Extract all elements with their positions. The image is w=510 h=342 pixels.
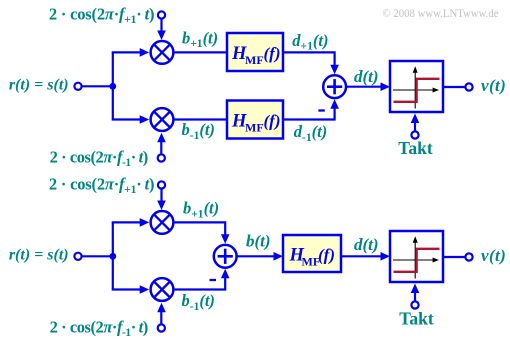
wire: matched filter to decision box with arrowhead (bottom diagram) xyxy=(341,252,390,261)
wire: M2 to matched filter H2 xyxy=(173,118,228,120)
node: Takt clock terminal (bottom diagram) xyxy=(411,301,418,308)
node: carrier f-1 input terminal (top diagram) xyxy=(158,154,165,161)
svg-text:Takt: Takt xyxy=(399,308,434,328)
wire: H1 output right then down into adder with arrowhead xyxy=(283,52,339,74)
wire: carrier f+1 node down to multiplier M3 with arrowhead xyxy=(157,189,166,210)
wire: H2 output right then up into adder with arrowhead xyxy=(283,99,339,119)
svg-text:2 · cos(2π·f-1· t): 2 · cos(2π·f-1· t) xyxy=(50,318,148,340)
decision device horizontal axis (top diagram) xyxy=(393,88,439,93)
multiplier M2 (top diagram, lower) xyxy=(151,108,174,131)
svg-text:r(t) = s(t): r(t) = s(t) xyxy=(9,77,69,94)
svg-text:2 · cos(2π·f+1· t): 2 · cos(2π·f+1· t) xyxy=(49,175,154,197)
wire: junction vertical branch (top diagram) xyxy=(112,52,114,119)
node: input terminal r(t) (top diagram) xyxy=(74,83,81,90)
adder (bottom diagram) xyxy=(214,245,237,268)
junction dot (top diagram) xyxy=(109,83,116,90)
decision device horizontal axis (bottom diagram) xyxy=(393,258,439,263)
wire: adder to decision box with arrowhead (top diagram) xyxy=(346,82,390,91)
minus sign at lower adder input (bottom diagram) xyxy=(210,279,217,281)
decision device box (bottom diagram) xyxy=(390,231,443,282)
adder (top diagram) xyxy=(323,75,346,98)
decision device vertical axis (bottom diagram) xyxy=(413,236,418,278)
wire: M1 to matched filter H1 xyxy=(173,51,228,53)
wire: adder to matched filter with arrowhead (bottom diagram) xyxy=(237,252,283,261)
wire: M4 output right then up into adder with arrowhead (bottom diagram) xyxy=(173,269,229,290)
wire: upper branch into multiplier M1 with arrowhead xyxy=(112,48,150,57)
svg-text:(f): (f) xyxy=(264,112,281,131)
node: carrier f+1 input terminal (bottom diagram) xyxy=(158,181,165,188)
matched filter box H2 (top diagram) with label H_MF(f) xyxy=(227,101,283,139)
svg-text:(f): (f) xyxy=(318,246,335,265)
minus sign at lower adder input (top diagram) xyxy=(318,109,324,111)
node: Takt clock terminal (top diagram) xyxy=(411,131,418,138)
svg-text:b(t): b(t) xyxy=(246,232,271,251)
svg-text:© 2008 www.LNTwww.de: © 2008 www.LNTwww.de xyxy=(383,6,499,20)
svg-text:Takt: Takt xyxy=(398,138,433,158)
wire: decision box to output node (bottom diagram) xyxy=(443,256,465,258)
svg-text:2 · cos(2π·f-1· t): 2 · cos(2π·f-1· t) xyxy=(50,148,148,170)
wire: input node to junction (top diagram) xyxy=(82,85,113,87)
decision device vertical axis (top diagram) xyxy=(413,66,418,108)
junction dot (bottom diagram) xyxy=(109,253,116,260)
node: carrier f+1 input terminal (top diagram) xyxy=(158,11,165,18)
wire: input node to junction (bottom diagram) xyxy=(82,255,113,257)
node: output terminal v(t) (top diagram) xyxy=(465,83,472,90)
svg-text:d(t): d(t) xyxy=(354,235,379,254)
wire: junction vertical branch (bottom diagram) xyxy=(112,222,114,289)
matched filter box H3 (bottom diagram) with label H_MF(f) xyxy=(283,235,341,272)
decision device red step characteristic (bottom diagram) xyxy=(394,249,440,272)
wire: decision box to output node (top diagram) xyxy=(443,86,465,88)
wire: lower branch into multiplier M2 with arrowhead xyxy=(112,115,150,124)
wire: Takt node up into decision box with arrowhead (top diagram) xyxy=(411,114,420,132)
svg-text:(f): (f) xyxy=(264,44,281,63)
node: carrier f-1 input terminal (bottom diagram) xyxy=(158,324,165,331)
wire: M3 output right then down into adder with arrowhead (bottom diagram) xyxy=(173,222,229,243)
wire: lower branch into multiplier M4 with arrowhead xyxy=(112,285,150,294)
wire: carrier f-1 node up to multiplier M2 with arrowhead xyxy=(157,133,166,154)
decision device box (top diagram) xyxy=(390,61,443,112)
multiplier M4 (bottom diagram, lower) xyxy=(151,278,174,301)
multiplier M1 (top diagram, upper) xyxy=(151,41,174,64)
wire: carrier f+1 node down to multiplier M1 with arrowhead xyxy=(157,19,166,40)
svg-text:v(t): v(t) xyxy=(481,76,506,95)
node: input terminal r(t) (bottom diagram) xyxy=(74,253,81,260)
multiplier M3 (bottom diagram, upper) xyxy=(151,211,174,234)
decision device red step characteristic (top diagram) xyxy=(394,79,440,102)
wire: upper branch into multiplier M3 with arrowhead xyxy=(112,218,150,227)
node: output terminal v(t) (bottom diagram) xyxy=(465,253,472,260)
wire: carrier f-1 node up to multiplier M4 with arrowhead xyxy=(157,303,166,324)
svg-text:v(t): v(t) xyxy=(481,246,506,265)
svg-text:MF: MF xyxy=(245,121,264,135)
svg-text:d(t): d(t) xyxy=(354,67,379,86)
svg-text:r(t) = s(t): r(t) = s(t) xyxy=(9,247,69,264)
svg-text:2 · cos(2π·f+1· t): 2 · cos(2π·f+1· t) xyxy=(49,5,154,27)
svg-text:MF: MF xyxy=(245,53,264,67)
wire: Takt node up into decision box with arrowhead (bottom diagram) xyxy=(411,284,420,302)
matched filter box H1 (top diagram) with label H_MF(f) xyxy=(227,33,283,71)
